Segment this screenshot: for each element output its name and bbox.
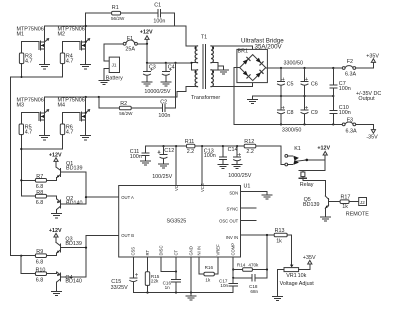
- capacitor C11 100n: [130, 146, 149, 161]
- resistor R1: [111, 5, 125, 21]
- power port +12V main: [140, 30, 153, 45]
- svg-text:R10: R10: [36, 267, 46, 273]
- relay K1 contacts: [285, 146, 325, 166]
- capacitor C4 electrolytic: [162, 63, 174, 82]
- svg-text:+12V: +12V: [49, 152, 62, 158]
- power port +12V Q1: [49, 152, 62, 167]
- resistor R2: [119, 101, 133, 116]
- fuse F1 25A: [123, 36, 137, 52]
- svg-text:4.7: 4.7: [66, 129, 74, 135]
- capacitor C1: [153, 2, 165, 24]
- svg-text:470k: 470k: [248, 263, 259, 268]
- svg-text:R1: R1: [112, 5, 119, 11]
- capacitor C14 electrolytic: [228, 146, 241, 164]
- wire bridge DC minus to negative rail: [234, 68, 240, 125]
- svg-text:100n: 100n: [339, 86, 351, 92]
- svg-text:GND: GND: [188, 246, 193, 255]
- ground C14: [232, 164, 242, 168]
- resistor R9 6.8: [20, 249, 46, 274]
- transistor Q5 BD139: [303, 196, 340, 217]
- svg-text:6.8: 6.8: [36, 259, 44, 265]
- power port +35V VR1: [303, 255, 316, 264]
- transistor M2 MOSFET MTP75N06: [58, 13, 90, 64]
- svg-text:100n: 100n: [130, 154, 142, 160]
- ground C4: [161, 82, 171, 86]
- resistor R16 1k: [199, 257, 218, 282]
- svg-text:J1: J1: [112, 63, 117, 68]
- svg-text:REMOTE: REMOTE: [346, 212, 369, 218]
- svg-text:C15: C15: [111, 279, 121, 285]
- svg-text:6.3A: 6.3A: [345, 72, 356, 78]
- resistor R6: [60, 124, 73, 149]
- svg-text:C12: C12: [164, 148, 174, 154]
- svg-text:OUT A: OUT A: [121, 195, 134, 200]
- svg-text:SDN: SDN: [229, 191, 238, 196]
- ground IC: [186, 293, 196, 301]
- svg-text:Voltage Adjust: Voltage Adjust: [280, 281, 315, 287]
- svg-text:2.2: 2.2: [187, 149, 195, 155]
- power port +35V output: [366, 54, 379, 63]
- svg-text:BD140: BD140: [65, 279, 81, 285]
- svg-text:3300/50: 3300/50: [284, 60, 304, 66]
- ground C12: [159, 164, 169, 168]
- svg-text:VC: VC: [174, 185, 179, 191]
- resistor R14 470k: [233, 263, 267, 272]
- ground M3 source: [40, 136, 50, 140]
- svg-text:100n: 100n: [158, 113, 170, 119]
- svg-text:SG3525: SG3525: [167, 219, 187, 225]
- svg-text:COMP: COMP: [231, 243, 236, 256]
- resistor R17 1k: [340, 194, 359, 210]
- svg-text:22k: 22k: [151, 279, 159, 284]
- ground C11: [140, 161, 150, 165]
- power port +12V Q3: [49, 228, 62, 242]
- svg-text:C17: C17: [219, 278, 228, 283]
- svg-text:25A: 25A: [125, 47, 135, 53]
- pin SYNC stub: [241, 207, 256, 209]
- svg-text:68n: 68n: [250, 289, 258, 294]
- svg-text:4.7: 4.7: [25, 129, 33, 135]
- wire DISC to CT: [161, 257, 177, 273]
- svg-text:R17: R17: [341, 194, 351, 200]
- fuse F2 6.3A: [342, 59, 356, 77]
- ground M1 source: [40, 65, 50, 69]
- resistor R10 6.8: [21, 267, 46, 283]
- capacitor C16 1n: [163, 257, 181, 293]
- ground SDN: [262, 195, 272, 199]
- svg-text:R2: R2: [120, 101, 127, 107]
- ground Q5 emitter: [320, 217, 330, 221]
- svg-text:1k: 1k: [205, 277, 211, 282]
- resistor R5: [19, 124, 32, 149]
- capacitor C3 electrolytic: [144, 63, 156, 82]
- svg-text:OSC OUT: OSC OUT: [219, 219, 239, 224]
- ground M4 source: [81, 136, 91, 140]
- svg-text:100/25V: 100/25V: [152, 174, 172, 180]
- transistor Q1 BD139: [47, 161, 87, 180]
- capacitor C12 electrolytic: [158, 146, 174, 164]
- capacitor C10 100n: [330, 96, 351, 124]
- svg-text:CT: CT: [173, 249, 178, 255]
- svg-text:1k: 1k: [342, 204, 348, 210]
- svg-text:M1: M1: [17, 32, 25, 38]
- ground mid rail: [248, 96, 258, 104]
- svg-text:2.2: 2.2: [246, 149, 254, 155]
- transformer secondary winding 1 to bridge AC top: [211, 46, 253, 63]
- svg-text:R13: R13: [275, 228, 285, 234]
- wire gate bus A (R3/R4 tie to lower driver): [11, 76, 63, 256]
- wire R2/C2 snubber line: [99, 63, 176, 108]
- capacitor C5 electrolytic: [278, 68, 294, 96]
- transformer T1: [191, 35, 220, 101]
- svg-text:F1: F1: [127, 36, 133, 42]
- wire bottom ground rail: [133, 291, 233, 293]
- transformer secondary winding 2 to bridge AC bottom: [211, 70, 253, 87]
- wire battery to fuse F1 and +12V node: [104, 44, 147, 63]
- wire mid 0V rail: [253, 95, 335, 97]
- svg-text:DISC: DISC: [159, 245, 164, 255]
- bridge rectifier BR1 Ultrafast 35A/200V: [237, 37, 284, 82]
- wire gate bus B (R5/R6 tie to upper driver): [20, 148, 62, 196]
- ground Q2 collector: [52, 214, 62, 218]
- label 1000/25V: [228, 173, 251, 179]
- label +/-35V DC Output: [356, 91, 381, 102]
- resistor R7 6.8: [20, 174, 46, 190]
- ground C3: [142, 82, 152, 86]
- connector J2 REMOTE: [346, 198, 369, 218]
- svg-text:6.3A: 6.3A: [346, 128, 357, 134]
- svg-text:56/2W: 56/2W: [111, 16, 125, 21]
- wire OUT A to Q1/Q2 bases: [85, 172, 119, 204]
- resistor R8 6.8: [21, 190, 46, 206]
- ground VR1: [272, 296, 282, 300]
- svg-text:3300/50: 3300/50: [282, 127, 302, 133]
- transformer primary winding 2: [186, 62, 198, 87]
- wire +12V rail to capacitors and primary center tap: [146, 62, 192, 70]
- label 10000/25V: [144, 89, 170, 95]
- svg-text:R9: R9: [36, 249, 43, 255]
- wire coil to Q5 collector: [303, 181, 325, 196]
- svg-text:100n: 100n: [153, 18, 165, 24]
- svg-text:VR1: VR1: [286, 273, 297, 279]
- svg-text:1k: 1k: [276, 239, 282, 245]
- svg-text:R11: R11: [185, 139, 195, 145]
- svg-text:1n: 1n: [165, 285, 171, 290]
- svg-text:56/2W: 56/2W: [119, 111, 133, 116]
- resistor R11 2.2: [185, 139, 195, 155]
- svg-text:6.8: 6.8: [36, 200, 44, 206]
- capacitor C18 68n: [233, 274, 267, 293]
- op-amp U1 SG3525 PWM controller: [119, 183, 251, 257]
- svg-text:U1: U1: [244, 184, 251, 190]
- svg-text:C4: C4: [168, 64, 175, 70]
- svg-text:M3: M3: [17, 103, 25, 109]
- svg-text:4.7: 4.7: [25, 58, 33, 64]
- transistor Q3 BD139: [47, 236, 87, 255]
- power port -35V output: [366, 130, 378, 141]
- svg-text:C14: C14: [228, 147, 238, 153]
- ground M2 source: [81, 65, 91, 69]
- svg-text:M4: M4: [58, 103, 66, 109]
- svg-text:+35V: +35V: [303, 255, 316, 261]
- transistor M4 MOSFET MTP75N06: [58, 97, 90, 136]
- svg-text:100n: 100n: [204, 153, 216, 159]
- svg-text:6.8: 6.8: [36, 184, 44, 190]
- svg-text:RT: RT: [145, 250, 150, 256]
- svg-text:C2: C2: [160, 100, 167, 106]
- svg-text:C3: C3: [149, 64, 156, 70]
- power port +12V relay: [317, 146, 330, 160]
- transformer primary winding 1: [186, 46, 198, 63]
- capacitor C2: [158, 100, 170, 119]
- wire positive rail: [266, 63, 374, 69]
- capacitor C7 100n: [330, 68, 351, 96]
- wire INV IN feedback node: [241, 234, 275, 278]
- svg-text:BD139: BD139: [303, 202, 319, 208]
- svg-text:K1: K1: [294, 146, 301, 152]
- fuse F3 6.3A: [342, 118, 357, 135]
- svg-text:33/25V: 33/25V: [111, 285, 128, 291]
- resistor R15 22k: [145, 257, 159, 293]
- svg-text:+35V: +35V: [366, 54, 379, 60]
- transistor Q2 BD140: [47, 196, 87, 214]
- svg-text:J2: J2: [360, 200, 365, 205]
- wire control +12V rail: [145, 145, 285, 165]
- svg-text:BD139: BD139: [65, 241, 81, 247]
- ground battery: [99, 80, 109, 84]
- label 100/25V: [152, 174, 172, 180]
- capacitor C6 electrolytic: [301, 68, 318, 96]
- svg-text:F3: F3: [347, 118, 353, 124]
- resistor R4: [60, 53, 73, 77]
- resistor R13 1k: [274, 228, 292, 264]
- svg-text:BD140: BD140: [66, 200, 82, 206]
- capacitor C15 soft start 33/25V: [111, 257, 138, 293]
- svg-text:+12V: +12V: [317, 146, 330, 152]
- svg-text:35A/200V: 35A/200V: [255, 44, 283, 51]
- svg-text:+12V: +12V: [140, 30, 153, 36]
- relay K1 coil: [299, 160, 325, 188]
- svg-text:T1: T1: [201, 35, 207, 41]
- svg-text:10k: 10k: [298, 273, 307, 279]
- capacitor C9 electrolytic: [301, 96, 318, 124]
- svg-text:Relay: Relay: [300, 182, 314, 188]
- capacitor C13 100n: [204, 146, 227, 164]
- svg-text:R16: R16: [205, 265, 214, 270]
- svg-text:BD139: BD139: [66, 166, 82, 172]
- svg-text:6.8: 6.8: [36, 277, 44, 283]
- svg-text:4.7: 4.7: [66, 58, 74, 64]
- svg-text:M2: M2: [58, 32, 66, 38]
- resistor R3: [19, 53, 32, 77]
- svg-text:10000/25V: 10000/25V: [144, 89, 170, 95]
- transistor M3 MOSFET MTP75N06: [17, 97, 49, 135]
- svg-text:OUT B: OUT B: [121, 233, 134, 238]
- wire drain bus M1/M2 to transformer primary top: [45, 26, 186, 46]
- pin SDN stub: [241, 192, 268, 195]
- wire snubber rail R1/C1: [86, 13, 175, 26]
- ground Q4 collector: [52, 291, 62, 295]
- pin OSC OUT stub: [241, 220, 256, 222]
- transistor M1 MOSFET MTP75N06: [17, 26, 49, 64]
- svg-text:CSS: CSS: [131, 247, 136, 256]
- svg-text:VREF: VREF: [215, 244, 220, 256]
- svg-text:C5: C5: [287, 81, 294, 87]
- svg-text:R8: R8: [36, 190, 43, 196]
- svg-text:C8: C8: [287, 110, 294, 116]
- wire OUT B to Q3/Q4 bases: [85, 235, 119, 277]
- svg-text:C1: C1: [154, 2, 161, 8]
- capacitor C17 10n: [219, 257, 237, 293]
- svg-text:R7: R7: [36, 174, 43, 180]
- label 3300/50 bottom: [282, 127, 302, 133]
- ground C13: [218, 164, 228, 168]
- pin VC supply: [175, 146, 177, 185]
- svg-text:+12V: +12V: [49, 228, 62, 234]
- svg-text:1000/25V: 1000/25V: [228, 173, 251, 179]
- svg-text:INV IN: INV IN: [226, 235, 238, 240]
- svg-text:F2: F2: [347, 59, 353, 65]
- ground secondary center tap: [219, 70, 229, 74]
- svg-text:100n: 100n: [339, 110, 351, 116]
- label 3300/50 top: [284, 60, 304, 66]
- svg-text:Output: Output: [358, 96, 375, 102]
- svg-text:SYNC: SYNC: [227, 206, 239, 211]
- potentiometer VR1 10k Voltage Adjust: [277, 264, 314, 296]
- svg-text:C9: C9: [311, 110, 318, 116]
- svg-text:NI IN: NI IN: [197, 246, 202, 256]
- wire negative rail: [234, 123, 373, 129]
- svg-text:10n: 10n: [220, 283, 228, 288]
- capacitor C8 electrolytic: [278, 96, 294, 124]
- svg-text:BR1: BR1: [238, 49, 249, 55]
- wire drain bus M3/M4 to transformer primary bottom: [45, 87, 186, 113]
- transformer secondary center tap: [218, 63, 224, 70]
- pin VCC supply: [201, 146, 203, 185]
- svg-text:C6: C6: [311, 81, 318, 87]
- svg-text:Transformer: Transformer: [191, 95, 220, 101]
- pin GND wire: [190, 257, 192, 293]
- resistor R12 2.2: [244, 139, 256, 155]
- transistor Q4 BD140: [47, 272, 87, 291]
- svg-text:-35V: -35V: [366, 135, 378, 141]
- svg-text:R14: R14: [237, 263, 246, 268]
- svg-text:R12: R12: [244, 139, 254, 145]
- connector J1 battery: [104, 57, 123, 82]
